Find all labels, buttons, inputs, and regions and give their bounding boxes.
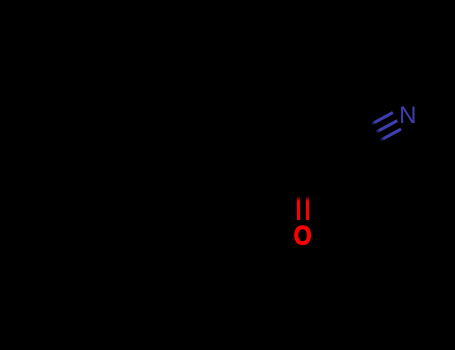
wire: C2-C3 bond to carbonyl carbon — [254, 195, 303, 198]
wire: alkyl chain C3-C4 bond — [206, 169, 254, 196]
triple bond C1#N (blue), bottom line — [380, 129, 401, 141]
triple bond C1#N (blue), top line — [371, 113, 393, 125]
svg-text:O: O — [294, 221, 312, 251]
double bond C2=O (red), left line — [297, 196, 300, 220]
double bond C2=O (red), right line — [306, 196, 309, 220]
wire: carbonyl C2 to nitrile C1 bond — [303, 144, 362, 196]
wire: alkyl chain C6-C7 bond (black skeleton, invisible on black) — [62, 144, 362, 196]
triple bond C1#N (blue), middle line — [376, 121, 398, 133]
svg-text:N: N — [399, 102, 416, 129]
wire: alkyl chain C4-C5 bond — [158, 169, 206, 196]
wire: alkyl chain C5-C6 bond — [110, 169, 158, 196]
